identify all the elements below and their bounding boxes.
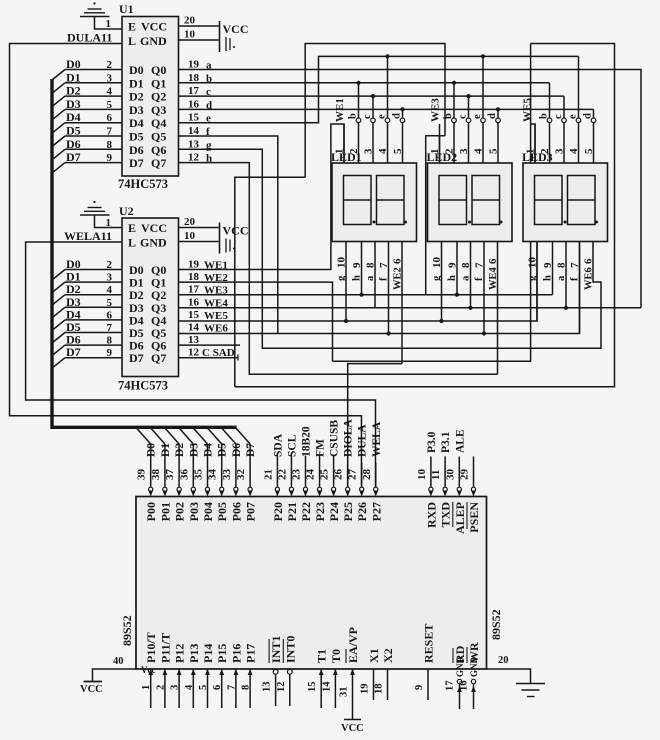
svg-text:19: 19 [188, 259, 200, 271]
svg-text:INT1: INT1 [269, 636, 283, 663]
svg-text:2: 2 [107, 259, 113, 271]
svg-text:VCC: VCC [141, 221, 167, 235]
svg-text:20: 20 [498, 655, 509, 666]
svg-text:WELA11: WELA11 [64, 229, 112, 243]
svg-text:DIOLA: DIOLA [343, 419, 355, 457]
svg-text:RXD: RXD [424, 502, 438, 528]
svg-text:15: 15 [188, 309, 200, 321]
svg-text:19: 19 [360, 684, 371, 695]
svg-text:4: 4 [184, 684, 195, 690]
U1 pin 20 VCC wire [179, 15, 219, 27]
svg-text:22: 22 [276, 469, 288, 481]
svg-text:WE4: WE4 [488, 266, 499, 290]
svg-text:D6: D6 [66, 137, 81, 151]
svg-text:40: 40 [113, 656, 124, 667]
LED3 top pin numbers [525, 148, 596, 154]
port2 stub wires and peripheral labels [272, 419, 382, 488]
svg-text:12: 12 [276, 682, 287, 693]
U2 pin 20 VCC wire [179, 216, 219, 228]
svg-text:b: b [539, 113, 550, 119]
MCU port0 labels inside [144, 502, 257, 521]
MCU left designator 89S52 and pin40 [113, 615, 134, 667]
svg-text:27: 27 [347, 469, 359, 481]
MCU T1 T0 labels [315, 649, 343, 663]
svg-text:P07: P07 [244, 502, 258, 521]
svg-text:X2: X2 [381, 648, 395, 663]
net e: U1 pin15 riser and top rail [179, 56, 579, 122]
svg-text:Q5: Q5 [151, 130, 166, 144]
svg-text:P13: P13 [187, 644, 201, 663]
svg-text:89S52: 89S52 [120, 615, 134, 646]
svg-text:15: 15 [188, 112, 200, 124]
svg-text:20: 20 [184, 216, 196, 228]
svg-text:L: L [128, 236, 136, 250]
svg-text:3: 3 [107, 272, 113, 284]
svg-text:EA/VP: EA/VP [346, 627, 360, 663]
mid horizontal wire to LED3 select riser [333, 44, 531, 362]
svg-text:7: 7 [107, 126, 113, 138]
U1 pin 10 GND wire [179, 29, 219, 41]
svg-text:WE3: WE3 [430, 98, 442, 122]
svg-text:34: 34 [207, 469, 219, 481]
svg-text:3: 3 [107, 72, 113, 84]
LED3 top pins 2-5 wires with circles [539, 56, 596, 163]
svg-text:4: 4 [107, 284, 113, 296]
U2 pin 10 GND wire [179, 230, 219, 242]
svg-text:CSUSB: CSUSB [329, 420, 341, 457]
svg-text:PSEN: PSEN [467, 502, 481, 533]
svg-text:P02: P02 [173, 502, 187, 521]
svg-text:P27: P27 [369, 502, 383, 521]
U1 pin 11 DULA11 net wire to MCU P26 [10, 31, 362, 488]
svg-text:74HC573: 74HC573 [118, 177, 168, 191]
svg-text:6: 6 [487, 258, 499, 264]
svg-text:D3: D3 [129, 103, 144, 117]
LED display LED2 body [427, 150, 513, 242]
net WE4/a rail: U2 pin16 run under displays [179, 307, 642, 309]
U2 pin 11 WELA11 net wire to MCU P27 [26, 229, 376, 487]
svg-text:9: 9 [107, 347, 113, 359]
svg-text:d: d [487, 113, 498, 119]
U2 pin 12 CSAD stub [179, 355, 239, 361]
T1 T0 pin wires [307, 669, 338, 708]
svg-text:P11/T: P11/T [158, 633, 172, 663]
svg-text:DULA: DULA [357, 424, 369, 457]
svg-text:P10/T: P10/T [144, 632, 158, 663]
svg-text:RESET: RESET [422, 624, 436, 663]
WE3 riser to LED2 pin1 [426, 136, 445, 295]
LED2 bottom pin numbers [431, 257, 499, 269]
svg-text:14: 14 [188, 125, 200, 137]
svg-text:P3.0: P3.0 [426, 431, 438, 453]
svg-text:13: 13 [188, 334, 200, 346]
MCU port1 labels inside bottom [144, 632, 257, 663]
svg-text:18B20: 18B20 [301, 426, 313, 457]
svg-text:17: 17 [188, 284, 200, 296]
svg-text:VCC: VCC [223, 224, 249, 238]
svg-text:29: 29 [459, 469, 471, 481]
net a: U1 pin19 to right margin and LED bottom rail [179, 70, 642, 308]
latch U1 74HC573 body [118, 2, 179, 191]
svg-text:D7: D7 [66, 150, 81, 164]
svg-text:D6: D6 [231, 443, 243, 457]
svg-text:13: 13 [262, 682, 273, 693]
LED1 bottom pin numbers [336, 257, 404, 269]
svg-text:38: 38 [150, 469, 162, 481]
svg-text:P20: P20 [271, 502, 285, 521]
svg-text:10: 10 [184, 29, 196, 41]
svg-text:P16: P16 [229, 644, 243, 663]
latch U2 74HC573 body [118, 204, 179, 393]
svg-text:Q4: Q4 [151, 116, 166, 130]
svg-text:d: d [583, 113, 594, 119]
U1 pin 1 E wire and ground [80, 2, 122, 30]
LED1 top select label WE1 [334, 98, 346, 122]
svg-text:c: c [362, 114, 373, 119]
svg-text:37: 37 [164, 469, 176, 481]
LED3 top select label WE5 [522, 98, 534, 122]
RESET pin wire [414, 669, 428, 700]
svg-text:33: 33 [221, 469, 233, 481]
svg-text:25: 25 [319, 469, 331, 481]
MCU port0 pin numbers 39-32 [136, 469, 247, 481]
svg-text:SDA: SDA [272, 433, 284, 457]
svg-text:P14: P14 [201, 644, 215, 663]
net WE1: U2 pin19 riser to LED1 pin1 [179, 124, 345, 270]
svg-text:D5: D5 [217, 443, 229, 457]
svg-text:P05: P05 [215, 502, 229, 521]
MCU port2 pin numbers 21-28 [262, 469, 372, 481]
svg-text:SCL: SCL [286, 434, 298, 457]
svg-text:18: 18 [374, 684, 385, 695]
LED2 top pin numbers [429, 148, 500, 154]
svg-text:D1: D1 [66, 70, 81, 84]
net d rail [179, 108, 594, 110]
svg-text:13: 13 [188, 138, 200, 150]
LED2 top select label WE3 [430, 98, 442, 122]
LED1 bottom segment letters [336, 267, 404, 290]
svg-text:16: 16 [188, 98, 200, 110]
svg-text:WE5: WE5 [204, 310, 228, 322]
svg-text:Q2: Q2 [151, 90, 166, 104]
svg-text:U2: U2 [119, 204, 134, 218]
svg-text:6: 6 [583, 258, 595, 264]
data bus (thick) [52, 79, 237, 427]
svg-text:20: 20 [184, 15, 196, 27]
LED1 pin1 wire [343, 124, 345, 163]
svg-text:7: 7 [107, 322, 113, 334]
EA pin wire to VCC [339, 669, 364, 734]
svg-text:ALEP: ALEP [453, 502, 467, 534]
svg-text:2: 2 [107, 59, 113, 71]
svg-text:P06: P06 [229, 502, 243, 521]
svg-text:D1: D1 [160, 443, 172, 457]
svg-text:14: 14 [188, 322, 200, 334]
svg-text:Q3: Q3 [151, 103, 166, 117]
LED3 bottom pin numbers [527, 257, 595, 269]
MCU EA/VP label [346, 627, 360, 663]
svg-text:D0: D0 [146, 443, 158, 457]
svg-text:WE6: WE6 [584, 267, 595, 290]
svg-text:P03: P03 [187, 502, 201, 521]
net f: U1 pin14 drop to bottom rail [179, 136, 278, 334]
svg-text:12: 12 [188, 347, 200, 359]
svg-text:17: 17 [188, 85, 200, 97]
svg-text:E: E [128, 20, 136, 34]
svg-text:1: 1 [106, 217, 112, 229]
svg-text:GND: GND [140, 236, 167, 250]
svg-text:P3.1: P3.1 [440, 431, 452, 453]
svg-text:P25: P25 [341, 502, 355, 521]
svg-text:14: 14 [321, 681, 332, 692]
svg-text:6: 6 [212, 685, 223, 690]
svg-text:Q6: Q6 [151, 143, 166, 157]
svg-text:Q7: Q7 [151, 156, 166, 170]
LED1 top pin numbers [334, 148, 405, 154]
svg-text:P01: P01 [158, 502, 172, 521]
svg-text:WE1: WE1 [334, 98, 346, 122]
svg-text:5: 5 [107, 297, 113, 309]
svg-text:GND: GND [469, 657, 479, 678]
svg-text:9: 9 [107, 152, 113, 164]
svg-text:FM: FM [315, 439, 327, 457]
svg-text:16: 16 [459, 681, 470, 692]
LED3 pin1 wire [534, 124, 536, 163]
svg-text:D6: D6 [129, 143, 144, 157]
LED2 bottom pin wires [442, 242, 485, 334]
INT pins circles wires [262, 669, 293, 706]
svg-text:39: 39 [136, 469, 148, 481]
svg-text:21: 21 [262, 469, 274, 480]
net g: U1 pin13 serpentine to MCU P25 DIOLA [179, 149, 602, 487]
svg-text:e: e [377, 114, 388, 119]
svg-text:5: 5 [198, 685, 209, 690]
svg-text:VCC: VCC [341, 723, 364, 734]
svg-text:T0: T0 [329, 649, 343, 663]
LED3 bottom segment letters [527, 267, 595, 290]
svg-text:DULA11: DULA11 [67, 31, 112, 45]
MCU port2 labels inside [271, 502, 383, 521]
svg-text:VCC: VCC [141, 20, 167, 34]
svg-text:18: 18 [188, 72, 200, 84]
svg-text:D7: D7 [129, 156, 144, 170]
svg-text:32: 32 [235, 469, 247, 481]
LED1 pin6 wire down [401, 242, 403, 364]
svg-text:Vcc: Vcc [141, 665, 156, 675]
svg-text:P12: P12 [173, 644, 187, 663]
svg-text:P15: P15 [215, 644, 229, 663]
svg-text:17: 17 [445, 681, 456, 692]
MCU 89S52 body [136, 497, 487, 670]
net WE2: U2 pin18 to LED2 pin6 [179, 242, 498, 375]
svg-text:15: 15 [307, 682, 318, 693]
svg-text:26: 26 [333, 469, 345, 481]
svg-text:P00: P00 [144, 502, 158, 521]
net WE6/f rail: U2 pin14 run under displays [179, 242, 580, 334]
net h: U1 pin12 drop and lower run to LED3 pin6 [179, 163, 498, 375]
U2 VCC power symbol [220, 223, 249, 254]
svg-text:23: 23 [291, 469, 303, 481]
svg-text:L: L [128, 34, 136, 48]
svg-text:16: 16 [188, 296, 200, 308]
svg-text:WE5: WE5 [522, 98, 534, 122]
svg-text:D4: D4 [203, 443, 215, 457]
svg-text:D4: D4 [66, 110, 81, 124]
svg-text:T1: T1 [315, 649, 329, 663]
MCU pins 10 11 30 29 numbers [416, 469, 471, 481]
svg-text:D3: D3 [188, 443, 200, 457]
svg-text:c: c [553, 114, 564, 119]
MCU right designator 89S52 and pin20 [489, 609, 509, 666]
svg-text:8: 8 [107, 335, 113, 347]
svg-text:VCC: VCC [223, 22, 249, 36]
svg-text:30: 30 [444, 469, 456, 481]
net WE5/g rail: U2 pin15 run under displays [179, 242, 538, 322]
U1 output pin labels 19a-12h [188, 59, 212, 165]
svg-text:9: 9 [414, 685, 425, 690]
top bridge 1 with riser [305, 44, 445, 178]
svg-text:D2: D2 [66, 84, 81, 98]
pin20 ground symbol [487, 669, 546, 697]
net b rail [179, 82, 550, 84]
svg-text:6: 6 [107, 112, 113, 124]
svg-text:8: 8 [107, 139, 113, 151]
net WE3/h rail: U2 pin17 run under displays [179, 294, 553, 296]
MCU INT1 INT0 labels [269, 636, 297, 663]
X1 X2 pin wires [360, 669, 388, 700]
svg-text:74HC573: 74HC573 [118, 379, 168, 393]
svg-text:10: 10 [184, 230, 196, 242]
svg-text:2: 2 [155, 685, 166, 690]
svg-text:WELA: WELA [371, 421, 383, 457]
svg-text:89S52: 89S52 [489, 609, 503, 640]
svg-text:ALE: ALE [454, 429, 466, 453]
bus fan-out diagonals to port0 with D labels [137, 428, 258, 487]
pin40 VCC supply [80, 669, 136, 695]
svg-text:D2: D2 [174, 443, 186, 457]
svg-text:D3: D3 [66, 97, 81, 111]
LED display LED3 body [522, 150, 608, 242]
net c rail [179, 95, 565, 97]
svg-text:1: 1 [141, 685, 152, 690]
MCU bottom pin wires arrows and numbers [141, 665, 253, 708]
svg-text:P17: P17 [244, 644, 258, 663]
svg-text:e: e [568, 114, 579, 119]
serial stub wires and P3 labels [426, 429, 474, 487]
svg-text:Q0: Q0 [151, 63, 166, 77]
svg-text:Q7: Q7 [151, 351, 166, 365]
svg-text:1: 1 [106, 18, 112, 30]
MCU X1 X2 labels [367, 648, 395, 663]
svg-text:5: 5 [107, 99, 113, 111]
svg-text:31: 31 [339, 687, 350, 698]
svg-text:Q1: Q1 [151, 76, 166, 90]
svg-text:P26: P26 [355, 502, 369, 521]
LED3 bottom pin wires [537, 242, 580, 334]
svg-text:P21: P21 [285, 502, 299, 521]
svg-text:D7: D7 [129, 351, 144, 365]
long return wire lower right [235, 44, 615, 387]
svg-text:8: 8 [241, 685, 252, 690]
LED2 bottom segment letters [432, 266, 500, 290]
svg-text:P24: P24 [327, 502, 341, 521]
svg-text:D1: D1 [129, 76, 144, 90]
U1 VCC power symbol [220, 21, 249, 52]
svg-text:19: 19 [188, 59, 200, 71]
svg-text:D0: D0 [66, 57, 81, 71]
svg-text:e: e [472, 114, 483, 119]
svg-text:28: 28 [361, 469, 373, 481]
svg-text:D5: D5 [129, 130, 144, 144]
svg-text:D4: D4 [129, 116, 144, 130]
svg-text:GND: GND [455, 657, 465, 678]
U2 output pin labels 19WE1-12CSAD [188, 259, 235, 360]
LED2 pin1 wire [439, 124, 441, 163]
bridge wire over U1 bottom [235, 177, 305, 386]
U2 data input wires D0-D7 with bus diagonals [52, 257, 122, 368]
svg-text:D7: D7 [66, 345, 81, 359]
RD WR pin wires with GND [445, 657, 480, 710]
LED1 top pins 2-5 wires with circles [348, 56, 405, 163]
svg-text:D0: D0 [129, 63, 144, 77]
svg-text:24: 24 [305, 469, 317, 481]
svg-text:b: b [443, 113, 454, 119]
LED display LED1 body [331, 150, 417, 242]
svg-text:d: d [392, 113, 403, 119]
MCU RD WR labels [453, 642, 481, 663]
svg-text:U1: U1 [119, 2, 134, 16]
U2 pin 1 E wire and ground [80, 201, 122, 229]
svg-text:b: b [348, 113, 359, 119]
U1 data input wires D0-D7 with bus diagonals [52, 57, 122, 173]
svg-text:WE6: WE6 [204, 323, 228, 335]
svg-text:c: c [458, 114, 469, 119]
LED3 select elbow to pin1 [531, 124, 535, 163]
LED2 top pins 2-5 wires with circles [443, 56, 500, 163]
U2 pin 13 stub [179, 344, 241, 346]
LED1 bottom pin wires [346, 242, 389, 334]
junction dots on rails [344, 54, 568, 335]
svg-text:11: 11 [430, 470, 442, 480]
svg-text:D5: D5 [66, 124, 81, 138]
svg-text:X1: X1 [367, 648, 381, 663]
svg-text:E: E [128, 221, 136, 235]
svg-text:36: 36 [178, 469, 190, 481]
MCU RESET label [422, 624, 436, 663]
svg-text:INT0: INT0 [283, 636, 297, 663]
svg-text:35: 35 [193, 469, 205, 481]
svg-text:D7: D7 [245, 443, 257, 457]
MCU top pin circles and arrows [148, 487, 476, 496]
svg-text:VCC: VCC [80, 684, 103, 695]
svg-text:6: 6 [107, 309, 113, 321]
svg-text:4: 4 [107, 86, 113, 98]
svg-text:18: 18 [188, 271, 200, 283]
svg-text:P22: P22 [299, 502, 313, 521]
svg-text:P23: P23 [313, 502, 327, 521]
svg-text:TXD: TXD [439, 502, 453, 528]
svg-text:P04: P04 [201, 502, 215, 521]
svg-text:10: 10 [416, 469, 428, 481]
svg-text:D2: D2 [129, 90, 144, 104]
svg-text:GND: GND [140, 34, 167, 48]
svg-text:3: 3 [170, 685, 181, 690]
svg-text:7: 7 [226, 685, 237, 690]
svg-text:12: 12 [188, 152, 200, 164]
MCU serial pins labels inside [424, 502, 481, 534]
